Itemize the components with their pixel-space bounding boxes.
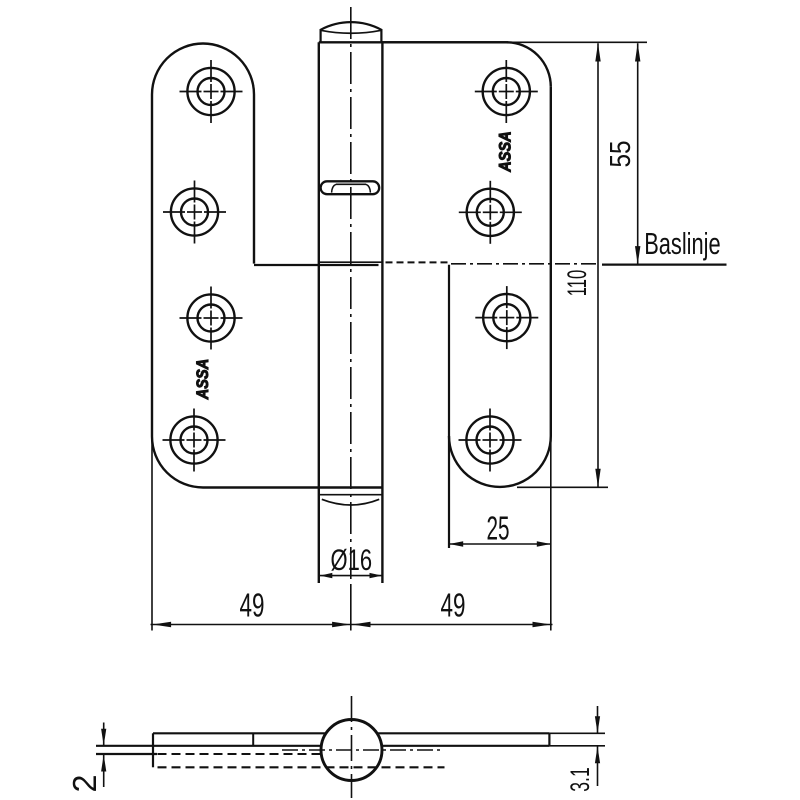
svg-text:3.1: 3.1 bbox=[565, 767, 595, 792]
svg-text:Baslinje: Baslinje bbox=[644, 227, 721, 261]
svg-text:55: 55 bbox=[605, 141, 637, 168]
svg-text:2: 2 bbox=[66, 775, 103, 793]
svg-text:110: 110 bbox=[562, 270, 592, 297]
svg-text:ASSA: ASSA bbox=[496, 131, 515, 172]
svg-text:ASSA: ASSA bbox=[193, 359, 212, 400]
svg-text:49: 49 bbox=[240, 586, 265, 623]
svg-text:49: 49 bbox=[441, 586, 466, 623]
svg-text:Ø16: Ø16 bbox=[331, 544, 373, 577]
svg-text:25: 25 bbox=[487, 510, 510, 547]
